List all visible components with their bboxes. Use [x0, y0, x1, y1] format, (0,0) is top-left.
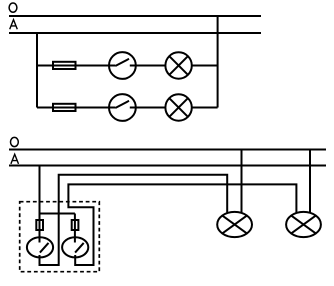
wire: branch inside box to second unit	[40, 213, 75, 215]
switch S4	[62, 237, 88, 257]
wire: lamp L1 to right vertical	[192, 65, 218, 67]
net label O (top diagram)	[9, 3, 17, 12]
wire: switch S1 to lamp L1	[136, 65, 166, 67]
net label O (bottom diagram)	[11, 137, 19, 146]
bus line A (bottom diagram)	[9, 165, 326, 167]
wire: lamp EL1 drop from bus O	[241, 150, 243, 214]
fuse F1	[53, 62, 76, 69]
fuse FU2	[72, 220, 79, 230]
switch S3	[27, 237, 53, 257]
wire: branch 1 from feeder to switch S1	[37, 65, 115, 67]
net label A (bottom diagram)	[11, 154, 19, 164]
switch S2	[109, 94, 136, 121]
bus line A (top diagram)	[9, 32, 261, 34]
lamp EL1	[217, 212, 252, 237]
wire: switch S3 output to lamp EL1	[40, 175, 228, 265]
net label A (top diagram)	[10, 20, 18, 30]
wire: left vertical feeder from bus A	[36, 33, 38, 108]
wire: drop to fuse FU2	[74, 214, 76, 243]
wire: branch 2 from feeder to switch S2	[37, 107, 115, 109]
lamp L1	[165, 52, 191, 78]
wire: switch S2 to lamp L2	[136, 107, 166, 109]
dashed enclosure: switch box	[20, 202, 100, 272]
wire: feeder from bus A down into box through fuse FU1	[39, 166, 41, 243]
bus line O (bottom diagram)	[9, 149, 326, 151]
bus line O (top diagram)	[9, 15, 261, 17]
lamp L2	[165, 94, 191, 120]
lamp EL2	[286, 212, 321, 237]
wire: switch S4 output to lamp EL2	[68, 184, 296, 265]
wire: lamp L2 to right vertical	[192, 107, 218, 109]
wire: right vertical return to bus O	[217, 16, 219, 108]
fuse F2	[53, 104, 76, 111]
wire: lamp EL2 drop from bus O	[309, 150, 311, 214]
switch S1	[109, 52, 136, 79]
fuse FU1	[36, 220, 43, 230]
